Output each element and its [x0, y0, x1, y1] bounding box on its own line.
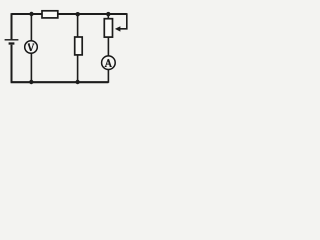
- wire middle branch lower: [77, 55, 79, 82]
- wire middle branch upper: [77, 14, 79, 37]
- wire rheostat to ammeter: [107, 37, 109, 56]
- wire slider feed (top right corner down): [120, 13, 127, 29]
- wire left upper: [11, 13, 13, 39]
- ammeter letter A: [105, 59, 112, 66]
- wire bottom: [11, 81, 109, 83]
- wire voltmeter branch upper: [30, 14, 32, 41]
- voltmeter V: [25, 41, 38, 54]
- rheostat R3 box: [104, 19, 112, 37]
- wire ammeter to bottom: [107, 69, 109, 82]
- battery cell short plate: [9, 42, 15, 44]
- junction node bottom-left (voltmeter return): [29, 80, 33, 84]
- wire rheostat top stub: [107, 14, 109, 19]
- resistor R1 (top horizontal): [42, 11, 58, 18]
- junction node bottom-middle (R2 return): [75, 80, 79, 84]
- junction node top-middle (R2 tap): [76, 12, 80, 16]
- rheostat slider arrowhead: [115, 26, 121, 31]
- wire voltmeter branch lower: [30, 53, 32, 82]
- resistor R2 (middle vertical): [75, 37, 83, 55]
- ammeter A: [102, 56, 116, 70]
- voltmeter letter V: [28, 44, 35, 51]
- battery cell long plate: [5, 39, 19, 41]
- junction node top-left (voltmeter tap): [29, 12, 33, 16]
- wire top: [12, 13, 127, 15]
- wire left lower: [11, 45, 13, 83]
- junction node top-right (rheostat tap): [106, 12, 110, 16]
